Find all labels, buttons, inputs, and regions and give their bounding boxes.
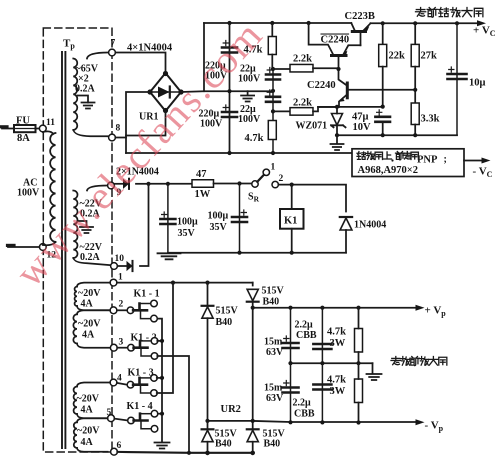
svg-text:~20V: ~20V — [77, 394, 100, 405]
wire node8 to riser — [115, 137, 126, 139]
AC input lead — [8, 246, 39, 248]
raw + rail top — [204, 22, 351, 24]
node 7 terminal — [109, 49, 116, 56]
svg-text:B40: B40 — [216, 317, 233, 328]
transformer dashed enclosure Tp — [43, 28, 112, 452]
65V winding centre-tap ground — [78, 96, 89, 103]
svg-text:10V: 10V — [353, 122, 372, 133]
relay contact K1-1 upper throw — [151, 300, 158, 307]
diode 515V B40 lower-right — [247, 430, 258, 441]
relay contact K1-3 common — [127, 381, 134, 388]
svg-text:0.2A: 0.2A — [75, 84, 96, 95]
bridge rectifier UR1 — [150, 73, 181, 111]
relay contact K1-2 lower throw — [141, 349, 151, 356]
svg-text:515V: 515V — [262, 286, 285, 297]
-Vp rail — [208, 421, 417, 422]
primary winding — [43, 131, 54, 134]
-Vc output — [464, 160, 483, 162]
svg-text:3W: 3W — [330, 386, 346, 397]
svg-text:K1: K1 — [284, 216, 297, 227]
svg-text:8A: 8A — [17, 133, 30, 144]
svg-text:0.2A: 0.2A — [80, 252, 101, 263]
transistor C223B (series pass) — [351, 23, 354, 30]
+Vp rail — [253, 307, 417, 309]
svg-text:15m: 15m — [264, 383, 283, 394]
svg-text:4A: 4A — [82, 330, 95, 341]
svg-text:3W: 3W — [330, 338, 346, 349]
node 10 terminal — [111, 263, 118, 270]
svg-text:6: 6 — [117, 441, 122, 451]
svg-text:B40: B40 — [264, 439, 281, 450]
resistor 22k — [382, 23, 384, 44]
svg-text:15m: 15m — [264, 337, 283, 348]
resistor 4.7k lower — [268, 121, 276, 140]
svg-text:5: 5 — [107, 408, 112, 418]
capacitor 220u 100V upper — [222, 48, 237, 53]
emitter node wire with 47u — [318, 106, 383, 108]
svg-text:WZ071: WZ071 — [296, 121, 328, 132]
diode D10 (1N4004) from node 10 — [117, 265, 126, 267]
svg-text:3: 3 — [119, 338, 124, 348]
diode 1N4004 flyback — [340, 218, 352, 230]
K1-2 lower throw riser to bottom rail — [157, 356, 189, 453]
switch SR — [252, 181, 258, 187]
UR2 right column — [252, 283, 254, 286]
svg-text:B40: B40 — [215, 439, 232, 450]
svg-text:63V: 63V — [266, 347, 284, 358]
relay contact K1-2 common — [128, 344, 135, 351]
relay contact K1-2 upper throw — [151, 338, 158, 345]
transformer core — [62, 52, 65, 448]
svg-text:63V: 63V — [266, 393, 284, 404]
capacitor 100u 35V right — [239, 184, 241, 253]
svg-text:22k: 22k — [389, 51, 406, 62]
20V winding W1 — [77, 283, 110, 287]
bottom return wire of regulator section — [126, 152, 352, 154]
text: to power amplifier (Chinese) — [391, 357, 401, 365]
20V winding W2 — [77, 310, 110, 314]
node 11 terminal — [39, 125, 46, 132]
wire tap2 to K1-1 — [117, 309, 127, 311]
relay contact K1-3 lower throw — [141, 386, 151, 393]
node 2 terminal — [110, 307, 117, 314]
svg-text:4×1N4004: 4×1N4004 — [127, 43, 173, 54]
relay minus wire — [168, 252, 346, 254]
svg-text:PNP: PNP — [417, 155, 438, 166]
K1-2 upper throw to bus — [157, 340, 162, 342]
relay contact K1-1 lower throw — [141, 311, 151, 318]
K1-1 lower throw to ground bus — [158, 319, 162, 442]
ground at relay minus — [158, 253, 181, 259]
capacitor 22u 100V upper — [272, 69, 274, 153]
20V winding W3 — [77, 383, 110, 387]
svg-text:1: 1 — [118, 273, 123, 283]
svg-text:CBB: CBB — [296, 330, 317, 341]
svg-text:2.2μ: 2.2μ — [293, 398, 312, 409]
svg-text:35V: 35V — [210, 222, 228, 233]
svg-text:35V: 35V — [178, 228, 196, 239]
transistor C2240 upper base drop — [339, 57, 347, 85]
svg-text:4A: 4A — [81, 437, 94, 448]
K1-3 upper throw to bus — [157, 377, 162, 379]
resistor 4.7k 3W lower — [355, 379, 363, 403]
svg-text:11: 11 — [46, 118, 55, 128]
capacitor 47u 10V — [375, 117, 390, 122]
svg-text:1: 1 — [271, 163, 276, 173]
capacitor 15m 63V lower — [290, 363, 292, 423]
svg-text:FU: FU — [16, 116, 30, 127]
relay contact K1-1 arm — [133, 304, 147, 311]
capacitor 10u — [456, 23, 458, 135]
svg-text:8: 8 — [116, 124, 121, 134]
resistor 3.3k — [411, 103, 419, 125]
zener WZ071 — [336, 107, 338, 114]
svg-text:CBB: CBB — [294, 409, 315, 420]
red watermark (decorative) — [6, 11, 272, 295]
svg-text:100V: 100V — [17, 188, 40, 199]
UR2 left column — [207, 283, 209, 306]
wire bridge right corner to raw node — [181, 90, 273, 93]
relay contact K1-4 common — [128, 417, 135, 424]
22V winding centre-tap ground — [78, 221, 87, 227]
node 8 terminal — [109, 134, 116, 141]
relay coil K1 — [291, 185, 293, 209]
text: to preamplifier (Chinese) — [416, 8, 426, 17]
relay contact K1-1 common — [127, 307, 134, 314]
transistor C2240 lower (error amp) — [346, 83, 349, 98]
svg-text:47: 47 — [196, 169, 207, 180]
bottom rail from node 6 — [117, 451, 252, 454]
fuse FU 8A — [2, 128, 14, 130]
svg-text:A968,A970×2: A968,A970×2 — [358, 165, 419, 176]
secondary winding 65V x2 — [87, 53, 108, 59]
node 9 terminal — [108, 182, 115, 189]
svg-text:100μ: 100μ — [177, 217, 198, 228]
node 12 terminal — [39, 244, 46, 251]
note box: structure same, use PNP A968/A970 — [352, 149, 464, 177]
svg-text:;: ; — [444, 154, 447, 165]
relay contact K1-4 arm — [134, 414, 148, 421]
capacitor 100u 35V left — [167, 184, 169, 253]
mid node ground — [247, 91, 249, 95]
resistor 27k — [414, 23, 416, 44]
svg-text:10μ: 10μ — [469, 78, 486, 89]
K1-3 lower throw riser to node-1 wire — [157, 283, 173, 393]
wire tap3 to K1-2 — [117, 347, 128, 349]
resistor 2.2k upper — [273, 68, 290, 70]
svg-text:1N4004: 1N4004 — [354, 220, 386, 231]
svg-text:C2240: C2240 — [307, 80, 336, 91]
capacitor 15m 63V upper — [290, 308, 292, 364]
relay contact K1-3 upper throw — [151, 375, 158, 382]
relay contact K1-4 upper throw — [151, 410, 158, 417]
svg-text:4A: 4A — [81, 405, 94, 416]
relay contact K1-2 arm — [134, 341, 148, 348]
resistor 2.2k lower — [273, 110, 290, 112]
node 1 terminal — [110, 279, 117, 286]
svg-text:10: 10 — [115, 254, 125, 264]
resistor 4.7k 3W upper — [355, 329, 363, 353]
svg-text:4.7k: 4.7k — [327, 375, 346, 386]
resistor 4.7k upper — [271, 23, 273, 37]
svg-text:100μ: 100μ — [208, 211, 229, 222]
svg-text:4.7k: 4.7k — [327, 327, 346, 338]
svg-text:C2240: C2240 — [321, 35, 350, 46]
transistor C2240 upper (darlington driver) — [309, 23, 333, 54]
svg-text:100V: 100V — [200, 119, 223, 130]
resistor 47 1W — [192, 180, 214, 188]
diode 515V B40 upper-left — [202, 307, 213, 318]
wire to 47 ohm — [149, 183, 193, 185]
svg-text:2: 2 — [279, 174, 284, 184]
ground at contact bus — [155, 443, 170, 449]
diode 515V B40 upper-right — [247, 289, 258, 300]
centre rail — [291, 362, 373, 364]
svg-text:4: 4 — [117, 374, 122, 384]
node 6 terminal — [111, 448, 118, 455]
note box text line 1 (Chinese) — [357, 152, 365, 160]
svg-text:B40: B40 — [263, 297, 280, 308]
svg-text:K1 - 4: K1 - 4 — [127, 401, 153, 412]
node 4 terminal — [110, 379, 117, 386]
svg-text:K1 - 1: K1 - 1 — [134, 289, 160, 300]
regulator rail ground — [336, 135, 338, 143]
svg-text:100V: 100V — [238, 114, 261, 125]
node 5 terminal — [108, 415, 115, 422]
svg-text:4.7k: 4.7k — [245, 133, 264, 144]
svg-text:~20V: ~20V — [78, 319, 101, 330]
20V winding W4 — [77, 418, 108, 422]
svg-text:2.2μ: 2.2μ — [295, 320, 314, 331]
wire SR-2 to K1 and diode — [278, 185, 346, 212]
svg-text:2: 2 — [119, 300, 124, 310]
wire bridge left corner to node8 riser — [126, 92, 150, 153]
svg-text:2.2k: 2.2k — [293, 54, 312, 65]
svg-text:4A: 4A — [81, 299, 94, 310]
wire tap4 to K1-3 — [117, 383, 127, 385]
capacitor 2.2u CBB lower — [321, 363, 323, 423]
svg-text:~20V: ~20V — [78, 288, 101, 299]
capacitor 2.2u CBB upper — [321, 308, 323, 364]
relay contact K1-3 arm — [133, 378, 147, 385]
svg-text:~20V: ~20V — [77, 426, 100, 437]
wire tap5 to K1-4 — [114, 419, 128, 421]
svg-text:C223B: C223B — [345, 11, 375, 22]
wire bridge bottom corner down-left — [126, 111, 166, 136]
filter rail x229.5 with 220u caps — [229, 23, 231, 153]
svg-text:100V: 100V — [238, 74, 261, 85]
node 3 terminal — [110, 344, 117, 351]
capacitor 22u 100V lower — [266, 97, 280, 102]
svg-text:UR2: UR2 — [221, 404, 241, 415]
diode 515V B40 lower-left — [202, 430, 213, 441]
+Vc output rail — [371, 22, 479, 24]
centre rail ground — [372, 363, 374, 373]
raw rail riser x204 — [203, 23, 205, 91]
wire node7 to bridge top — [115, 53, 165, 73]
capacitor 220u 100V lower — [222, 112, 237, 117]
regulator lower rail — [337, 134, 457, 136]
relay contact K1-4 lower throw — [141, 422, 151, 429]
svg-text:1W: 1W — [195, 189, 211, 200]
svg-text:2.2k: 2.2k — [293, 98, 312, 109]
svg-text:7: 7 — [111, 39, 116, 49]
secondary winding 22V x2 — [87, 186, 107, 191]
svg-text:27k: 27k — [421, 51, 438, 62]
node 1 wire — [117, 282, 253, 284]
svg-text:515V: 515V — [216, 306, 239, 317]
K1-4 upper throw to bus — [158, 413, 162, 415]
svg-text:3.3k: 3.3k — [421, 114, 440, 125]
diode D9 (1N4004) from node 9 — [114, 183, 122, 185]
